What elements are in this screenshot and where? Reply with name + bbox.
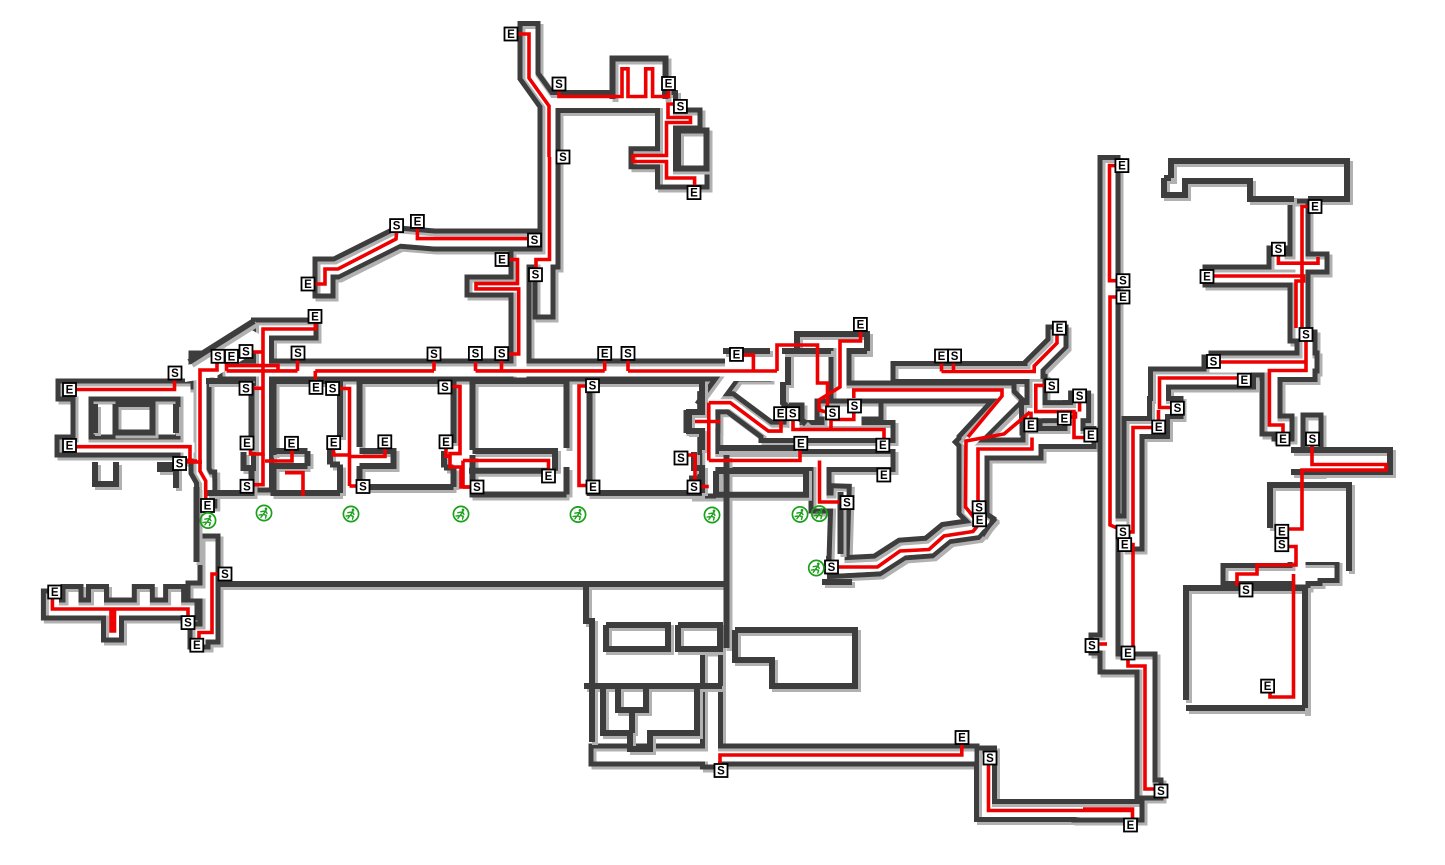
svg-text:E: E xyxy=(507,29,515,41)
exit marker E (54.7,592) xyxy=(48,586,61,600)
svg-text:E: E xyxy=(1121,540,1129,552)
svg-text:E: E xyxy=(498,255,506,267)
exit marker E (502,259.5) xyxy=(496,253,509,267)
svg-text:S: S xyxy=(851,401,859,413)
start marker S (1123,532) xyxy=(1117,526,1130,540)
svg-text:E: E xyxy=(288,438,296,450)
svg-text:S: S xyxy=(677,453,685,465)
start marker S (694,487) xyxy=(688,481,701,495)
svg-text:E: E xyxy=(958,733,966,745)
exit marker E (548.5,476) xyxy=(542,470,555,484)
exit marker E (593,487) xyxy=(587,481,600,495)
svg-text:E: E xyxy=(777,409,785,421)
start marker S (396.6,225.6) xyxy=(390,219,403,233)
start marker S (188,622.6) xyxy=(182,616,195,630)
start marker S (1281.8,544.7) xyxy=(1275,538,1288,552)
exit marker E (1059.4,328.2) xyxy=(1053,322,1066,336)
svg-text:E: E xyxy=(601,348,609,360)
corridor tubes: inner bevel xyxy=(52,33,1328,812)
start marker S (681,458) xyxy=(675,452,688,466)
exit marker E (1124.7,544.6) xyxy=(1118,538,1131,552)
svg-text:S: S xyxy=(359,482,367,494)
start marker S (475.4,353.4) xyxy=(469,347,482,361)
svg-text:S: S xyxy=(717,766,725,778)
emergency exit icon (264,513) xyxy=(256,505,271,520)
svg-text:S: S xyxy=(393,221,401,233)
svg-text:E: E xyxy=(665,79,673,91)
start marker S (175,373) xyxy=(169,367,182,381)
start marker S (179.6,463.5) xyxy=(173,457,186,471)
exit marker E (736.5,354.4) xyxy=(730,348,743,362)
start marker S (1278.4,249.2) xyxy=(1272,243,1285,257)
start marker S (477,487) xyxy=(471,481,484,495)
svg-text:S: S xyxy=(589,381,597,393)
start marker S (1161,791) xyxy=(1155,785,1168,799)
exit marker E (1283,439) xyxy=(1277,433,1290,447)
svg-text:E: E xyxy=(589,482,597,494)
exit marker E (1267.6,686.1) xyxy=(1261,680,1274,694)
svg-text:E: E xyxy=(381,437,389,449)
svg-text:E: E xyxy=(51,587,59,599)
exit marker E (1315,206.5) xyxy=(1309,200,1322,214)
svg-text:E: E xyxy=(1203,272,1211,284)
svg-text:S: S xyxy=(1210,356,1218,368)
svg-text:S: S xyxy=(1088,641,1096,653)
svg-text:S: S xyxy=(690,482,698,494)
start marker S (534.5,240) xyxy=(528,234,541,248)
start marker S (246,351.5) xyxy=(240,345,253,359)
svg-text:E: E xyxy=(1027,420,1035,432)
start marker S (1123,280.7) xyxy=(1117,274,1130,288)
start marker S (1246,590) xyxy=(1240,584,1253,598)
svg-text:S: S xyxy=(789,409,797,421)
svg-text:S: S xyxy=(1157,786,1165,798)
svg-text:S: S xyxy=(184,618,192,630)
svg-text:E: E xyxy=(66,440,74,452)
svg-text:S: S xyxy=(171,368,179,380)
room walls shadow xyxy=(616,62,1394,714)
svg-text:E: E xyxy=(976,515,984,527)
start marker S (1177.4,408.2) xyxy=(1171,402,1184,416)
svg-text:S: S xyxy=(986,753,994,765)
svg-text:E: E xyxy=(330,438,338,450)
svg-text:S: S xyxy=(472,348,480,360)
svg-text:S: S xyxy=(1302,330,1310,342)
svg-text:E: E xyxy=(312,382,320,394)
svg-text:E: E xyxy=(1124,648,1132,660)
exit marker E (69.5,445.4) xyxy=(63,439,76,453)
svg-text:E: E xyxy=(1264,681,1272,693)
svg-text:E: E xyxy=(204,501,212,513)
exit marker E (315,316.4) xyxy=(309,310,322,324)
svg-text:E: E xyxy=(690,188,698,200)
exit marker E (196.8,645.2) xyxy=(190,639,203,653)
exit marker E (882.8,445.2) xyxy=(876,439,889,453)
single walls xyxy=(98,134,1308,753)
svg-text:S: S xyxy=(294,348,302,360)
svg-text:S: S xyxy=(1278,540,1286,552)
svg-text:S: S xyxy=(531,235,539,247)
start marker S (1213.5,361.4) xyxy=(1207,355,1220,369)
start marker S (832.5,413) xyxy=(826,407,839,421)
svg-text:S: S xyxy=(829,408,837,420)
svg-text:S: S xyxy=(473,482,481,494)
svg-text:E: E xyxy=(1127,820,1135,832)
start marker S (247,486.3) xyxy=(241,480,254,494)
start marker S (445,387) xyxy=(439,381,452,395)
svg-text:E: E xyxy=(304,279,312,291)
svg-text:S: S xyxy=(1119,276,1127,288)
start marker S (954.6,356) xyxy=(948,350,961,364)
exit marker E (979.6,519.8) xyxy=(973,513,986,527)
exit marker E (883.8,475) xyxy=(877,469,890,483)
svg-text:S: S xyxy=(498,349,506,361)
svg-text:S: S xyxy=(828,562,836,574)
emergency exit icon (816.3,568) xyxy=(809,560,824,575)
exit marker E (1030.8,425) xyxy=(1024,419,1037,433)
emergency exit icon (819.4,513.6) xyxy=(812,506,827,521)
svg-text:E: E xyxy=(228,351,236,363)
start marker S (979.1,507.7) xyxy=(973,501,986,515)
exit marker E (308,284) xyxy=(302,278,315,292)
exit marker E (333.7,442.6) xyxy=(327,436,340,450)
start marker S (1051.7,385.8) xyxy=(1045,379,1058,393)
start marker S (225,574) xyxy=(219,568,232,582)
svg-text:E: E xyxy=(1240,375,1248,387)
exit marker E (860.4,324.4) xyxy=(854,318,867,332)
exit marker E (247,443) xyxy=(241,437,254,451)
svg-text:S: S xyxy=(242,347,250,359)
svg-text:S: S xyxy=(624,348,632,360)
svg-text:S: S xyxy=(1275,244,1283,256)
svg-text:S: S xyxy=(559,152,567,164)
exit marker E (511,34) xyxy=(505,28,518,42)
svg-text:S: S xyxy=(242,383,250,395)
exit marker E (800.8,443.3) xyxy=(794,437,807,451)
exit marker E (1123,297) xyxy=(1117,291,1130,305)
start marker S (1079.6,395.9) xyxy=(1073,389,1086,403)
svg-text:E: E xyxy=(938,351,946,363)
exit marker E (962,737.5) xyxy=(956,731,969,745)
start marker S (298,353) xyxy=(292,347,305,361)
svg-text:S: S xyxy=(430,349,438,361)
exit marker E (1090.8,435.1) xyxy=(1084,429,1097,443)
corridor tubes: white floor xyxy=(54,34,1330,813)
start marker S (1092,645.5) xyxy=(1086,639,1099,653)
svg-text:E: E xyxy=(1087,430,1095,442)
start marker S (847,502.6) xyxy=(841,496,854,510)
exit marker E (1130.5,825) xyxy=(1124,819,1137,833)
room fills xyxy=(616,62,662,108)
svg-text:S: S xyxy=(843,498,851,510)
start marker S (246,388.3) xyxy=(240,382,253,396)
svg-text:E: E xyxy=(733,349,741,361)
svg-text:E: E xyxy=(879,440,887,452)
svg-text:E: E xyxy=(1119,292,1127,304)
exit marker E (941.5,356) xyxy=(935,350,948,364)
start marker S (721,770.5) xyxy=(715,764,728,778)
start marker S (559,84) xyxy=(553,78,566,92)
start marker S (628,353.4) xyxy=(622,347,635,361)
exit marker E (291.5,443.3) xyxy=(285,437,298,451)
svg-text:E: E xyxy=(1311,202,1319,214)
exit marker E (668.5,83.5) xyxy=(662,77,675,91)
start marker S (501.7,353.6) xyxy=(495,347,508,361)
svg-text:E: E xyxy=(857,319,865,331)
exit marker E (1207,276.5) xyxy=(1201,270,1214,284)
svg-text:S: S xyxy=(214,351,222,363)
exit marker E (1128,653) xyxy=(1122,647,1135,661)
emergency exit icon (800,514.4) xyxy=(792,507,807,522)
start marker S (680.4,106.4) xyxy=(674,100,687,114)
start marker S (592.5,385.7) xyxy=(586,379,599,393)
svg-text:E: E xyxy=(193,640,201,652)
svg-text:E: E xyxy=(1279,434,1287,446)
svg-text:S: S xyxy=(1309,434,1317,446)
svg-text:E: E xyxy=(66,385,74,397)
svg-text:S: S xyxy=(176,459,184,471)
start marker S (332.6,388.5) xyxy=(326,382,339,396)
svg-text:E: E xyxy=(1118,161,1126,173)
start marker S (535.5,274.7) xyxy=(529,268,542,282)
exit marker E (1244.3,380.2) xyxy=(1238,374,1251,388)
start marker S (990,758) xyxy=(984,752,997,766)
start marker S (363,486.5) xyxy=(357,480,370,494)
svg-text:E: E xyxy=(1060,413,1068,425)
start marker S (831.5,567) xyxy=(825,561,838,575)
svg-text:S: S xyxy=(221,569,229,581)
svg-text:E: E xyxy=(1056,323,1064,335)
exit marker E (1121.9,165.6) xyxy=(1115,159,1128,173)
svg-text:E: E xyxy=(1278,526,1286,538)
svg-text:E: E xyxy=(414,216,422,228)
start marker S (1306,334.5) xyxy=(1300,328,1313,342)
start marker S (854.5,406) xyxy=(848,400,861,414)
svg-text:S: S xyxy=(532,270,540,282)
svg-text:S: S xyxy=(1076,391,1084,403)
svg-text:S: S xyxy=(329,384,337,396)
svg-text:E: E xyxy=(797,438,805,450)
emergency exit icon (461,514) xyxy=(453,506,468,521)
emergency exit icon (351,514) xyxy=(343,506,358,521)
exit marker E (417.4,221.4) xyxy=(411,215,424,229)
emergency exit icon (208,520.5) xyxy=(200,513,215,528)
emergency exit icon (712,515) xyxy=(704,507,719,522)
exit marker E (694,192.6) xyxy=(688,186,701,200)
svg-text:S: S xyxy=(441,382,449,394)
svg-text:S: S xyxy=(1048,381,1056,393)
svg-text:S: S xyxy=(1174,403,1182,415)
svg-text:S: S xyxy=(951,351,959,363)
exit marker E (780.6,413.7) xyxy=(774,407,787,421)
exit marker E (446,441.8) xyxy=(440,435,453,449)
svg-text:E: E xyxy=(243,438,251,450)
svg-text:S: S xyxy=(555,79,563,91)
exit marker E (1281.8,531.3) xyxy=(1275,525,1288,539)
svg-text:E: E xyxy=(545,471,553,483)
svg-text:S: S xyxy=(1242,585,1250,597)
svg-text:E: E xyxy=(1155,422,1163,434)
corridor tubes: dark walls xyxy=(52,33,1328,812)
exit marker E (1158.7,427) xyxy=(1152,421,1165,435)
exit marker E (231.5,356.3) xyxy=(225,350,238,364)
exit marker E (207.5,505.5) xyxy=(201,499,214,513)
svg-text:E: E xyxy=(442,437,450,449)
start marker S (563,157) xyxy=(557,151,570,165)
corridor tubes: shadow layer xyxy=(55,36,1331,815)
svg-text:S: S xyxy=(243,481,251,493)
exit marker E (316,387.4) xyxy=(310,381,323,395)
start marker S (218,356.3) xyxy=(212,350,225,364)
exit marker E (69.5,389.5) xyxy=(63,383,76,397)
exit marker E (384.8,441.8) xyxy=(378,435,391,449)
svg-text:E: E xyxy=(880,470,888,482)
start marker S (434,354) xyxy=(428,348,441,362)
svg-text:E: E xyxy=(311,311,319,323)
start marker S (1312.5,439) xyxy=(1306,433,1319,447)
emergency exit icon (578,514.5) xyxy=(570,507,585,522)
exit marker E (1064.3,418.3) xyxy=(1058,412,1071,426)
exit marker E (604.7,353.4) xyxy=(598,347,611,361)
start marker S (792.7,413.7) xyxy=(786,407,799,421)
svg-text:S: S xyxy=(677,101,685,113)
